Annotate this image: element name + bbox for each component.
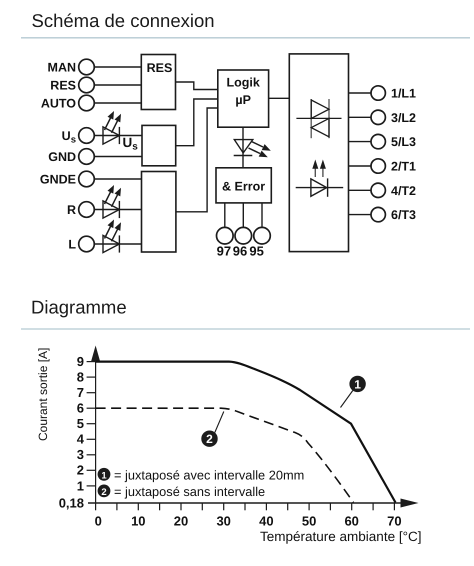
svg-text:95: 95 <box>249 244 263 259</box>
svg-text:6/T3: 6/T3 <box>391 208 416 222</box>
svg-text:1: 1 <box>101 470 107 481</box>
svg-text:Us: Us <box>62 129 76 146</box>
block supply box2 <box>142 125 176 165</box>
terminal GND <box>48 149 94 165</box>
terminal RES <box>50 77 94 93</box>
block & Error U3 <box>216 168 271 203</box>
wire out 6/T3 <box>349 214 372 216</box>
svg-text:5: 5 <box>77 416 84 431</box>
svg-text:8: 8 <box>77 370 84 385</box>
svg-text:50: 50 <box>302 514 316 529</box>
svg-text:µP: µP <box>235 93 251 107</box>
wire L to box3 <box>94 243 141 245</box>
x axis <box>88 502 401 504</box>
wire out 5/L3 <box>349 141 372 143</box>
y axis arrow <box>91 346 100 362</box>
wire out 4/T2 <box>349 189 372 191</box>
wire Error to 96 <box>242 203 244 228</box>
y axis <box>95 348 97 503</box>
terminal R <box>67 202 94 218</box>
svg-text:& Error: & Error <box>222 180 265 194</box>
terminal MAN <box>48 59 95 75</box>
svg-text:GND: GND <box>48 150 76 164</box>
wire Logik to output block <box>269 97 290 99</box>
svg-text:MAN: MAN <box>48 61 76 75</box>
x labels <box>95 514 402 529</box>
svg-text:2: 2 <box>77 463 84 478</box>
svg-text:RES: RES <box>50 79 76 93</box>
x ticks <box>96 503 395 510</box>
svg-text:Diagramme: Diagramme <box>31 297 127 318</box>
svg-text:1/L1: 1/L1 <box>391 87 416 101</box>
svg-text:3/L2: 3/L2 <box>391 111 416 125</box>
svg-text:30: 30 <box>216 514 230 529</box>
LED L <box>103 220 121 253</box>
y ticks <box>87 362 96 486</box>
svg-text:R: R <box>67 203 76 217</box>
svg-text:5/L3: 5/L3 <box>391 135 416 149</box>
block output stage U4 <box>289 54 348 252</box>
terminal 5/L3 <box>371 134 416 149</box>
svg-text:3: 3 <box>77 447 84 462</box>
wire C box3 to Logik <box>176 108 218 212</box>
legend symbol 2 <box>98 485 111 498</box>
block input box3 <box>142 172 176 253</box>
wire B box2 to Logik <box>176 99 218 146</box>
terminal GNDE <box>40 171 94 187</box>
block Logik µP U2 <box>218 70 269 127</box>
svg-text:1: 1 <box>77 478 84 493</box>
wire A RES box to Logik <box>176 82 218 90</box>
marker 1 leader <box>341 391 353 408</box>
legend symbol 1 <box>98 468 111 481</box>
terminal Us <box>62 128 95 146</box>
terminal 4/T2 <box>371 183 416 198</box>
svg-text:RES: RES <box>147 61 173 75</box>
svg-text:1: 1 <box>354 377 361 391</box>
curve 2 dashed <box>96 408 354 502</box>
svg-text:Température ambiante [°C]: Température ambiante [°C] <box>260 529 421 544</box>
terminal AUTO <box>41 95 94 111</box>
svg-text:40: 40 <box>259 514 273 529</box>
svg-text:AUTO: AUTO <box>41 97 76 111</box>
block RES U1 <box>141 55 175 110</box>
wire Us to box2 <box>94 135 142 137</box>
terminal 1/L1 <box>371 86 416 101</box>
wire GNDE to box3 <box>94 178 141 180</box>
terminal 97 <box>217 227 234 258</box>
svg-text:Courant sortie [A]: Courant sortie [A] <box>36 348 50 441</box>
marker 1 <box>349 376 365 392</box>
wire out 1/L1 <box>349 92 372 94</box>
wire out 3/L2 <box>349 116 372 118</box>
LED output (right, two up arrows) <box>296 160 344 197</box>
wire R to box3 <box>94 209 141 211</box>
svg-text:0: 0 <box>95 514 102 529</box>
marker 2 leader <box>215 412 224 433</box>
wire out 2/T1 <box>349 165 372 167</box>
svg-text:6: 6 <box>77 401 84 416</box>
svg-text:2/T1: 2/T1 <box>391 160 416 174</box>
svg-text:9: 9 <box>77 354 84 369</box>
svg-text:60: 60 <box>344 514 358 529</box>
y labels <box>59 354 85 510</box>
wire RES to RES box <box>94 84 141 86</box>
triac symbol <box>296 99 341 138</box>
wire AUTO to RES box <box>94 102 141 104</box>
svg-text:= juxtaposé avec intervalle 20: = juxtaposé avec intervalle 20mm <box>114 467 304 482</box>
svg-text:97: 97 <box>217 244 231 259</box>
svg-text:0,18: 0,18 <box>59 495 84 510</box>
terminal 3/L2 <box>371 110 416 125</box>
wire Error to 95 <box>261 203 263 228</box>
LED Us <box>103 111 121 144</box>
terminal 96 <box>233 227 252 258</box>
svg-text:7: 7 <box>77 385 84 400</box>
svg-text:20: 20 <box>174 514 188 529</box>
terminal 95 <box>249 227 270 258</box>
wire Error to 97 <box>224 203 226 228</box>
marker 2 <box>201 431 217 447</box>
terminal 6/T3 <box>371 207 416 222</box>
terminal L <box>68 236 94 252</box>
svg-text:Logik: Logik <box>227 75 260 89</box>
svg-text:Us: Us <box>123 135 139 153</box>
wire MAN to RES box <box>94 66 141 68</box>
LED R <box>103 185 121 218</box>
svg-text:4: 4 <box>77 432 85 447</box>
svg-text:L: L <box>68 238 76 252</box>
svg-text:4/T2: 4/T2 <box>391 184 416 198</box>
svg-text:GNDE: GNDE <box>40 173 76 187</box>
terminal 2/T1 <box>371 159 416 174</box>
svg-text:Schéma de connexion: Schéma de connexion <box>32 10 215 31</box>
wire Logik to Error box <box>242 127 244 168</box>
wire GND to box2 <box>94 156 142 158</box>
svg-text:= juxtaposé sans intervalle: = juxtaposé sans intervalle <box>114 484 265 499</box>
svg-text:10: 10 <box>131 514 145 529</box>
svg-text:2: 2 <box>206 432 213 446</box>
x axis arrow <box>401 499 419 508</box>
svg-text:96: 96 <box>233 244 247 259</box>
svg-text:70: 70 <box>387 514 401 529</box>
LED error (down) <box>234 140 271 158</box>
svg-text:2: 2 <box>101 487 106 498</box>
curve 1 solid <box>96 362 396 503</box>
separator line <box>21 37 470 39</box>
separator line 2 <box>21 328 470 330</box>
